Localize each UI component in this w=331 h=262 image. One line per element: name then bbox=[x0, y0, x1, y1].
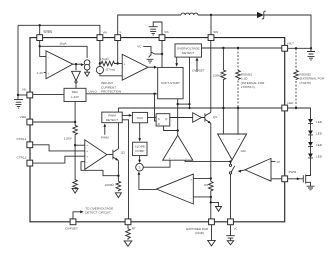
wire GM inputs to rail bbox=[223, 108, 238, 135]
svg-text:SHDN: SHDN bbox=[43, 30, 52, 34]
wire sense to inrush amp plus bbox=[118, 63, 123, 65]
wire SHDN internal drop bbox=[40, 41, 46, 57]
svg-text:–: – bbox=[268, 160, 270, 164]
LED D2 bbox=[308, 119, 313, 123]
wire Q1 collector to SW bbox=[210, 41, 212, 113]
node VIN cap junction dot bbox=[17, 94, 19, 96]
pin EXPOSED PAD bbox=[209, 219, 215, 225]
wire diode to output corner bbox=[264, 15, 311, 48]
pin VOUT bbox=[282, 45, 288, 51]
node ext rsense bottom bbox=[295, 107, 297, 109]
ground MOSFET source bbox=[307, 186, 315, 190]
op-amp A1 error amplifier bbox=[85, 140, 107, 170]
wire VIN internal drop bbox=[99, 41, 101, 67]
wire OVPSET annotation arrow bbox=[73, 212, 81, 219]
svg-text:Σ: Σ bbox=[139, 166, 141, 170]
wire VIN pin to REF bbox=[33, 94, 64, 96]
pin VREF bbox=[27, 119, 33, 125]
wire tap to error amp in1 bbox=[75, 144, 85, 146]
ground input cap bbox=[16, 105, 22, 109]
transistor Q1 bbox=[202, 112, 211, 123]
svg-text:+: + bbox=[268, 178, 270, 182]
LED D3 bbox=[308, 131, 313, 135]
node VREF branch bbox=[74, 121, 76, 123]
op-amp A5 PWM buffer bbox=[245, 158, 271, 181]
block SOFT-START bbox=[158, 67, 183, 98]
pin VIN left bbox=[27, 92, 33, 98]
svg-text:I: I bbox=[99, 68, 100, 72]
pin LED bbox=[282, 105, 288, 111]
node 1.05V tap bbox=[74, 144, 76, 146]
pin SW bbox=[208, 35, 214, 41]
svg-text:100kΩ: 100kΩ bbox=[213, 74, 223, 78]
wire comparator output bbox=[73, 63, 82, 65]
pin SS bbox=[159, 35, 165, 41]
ground VC arrow bbox=[227, 238, 233, 245]
wire OVD to soft-start arrow bbox=[176, 57, 178, 64]
wire feedback to error amp in4 bbox=[81, 162, 118, 176]
wire VC external cap bbox=[226, 225, 235, 238]
wire detect to osc arrow bbox=[122, 114, 129, 116]
wire detect to RT pin bbox=[122, 120, 128, 219]
op-amp A2 PWM comparator bbox=[163, 135, 193, 160]
svg-text:SOFT-START: SOFT-START bbox=[161, 81, 180, 85]
wire soft-start branch to rail bbox=[178, 103, 190, 105]
svg-text:LED: LED bbox=[316, 120, 323, 124]
block OVERVOLTAGE DETECT bbox=[175, 44, 202, 57]
wire inrush to soft-start arrow bbox=[148, 66, 155, 68]
svg-text:LED: LED bbox=[316, 132, 323, 136]
pin CTRL1 bbox=[27, 142, 33, 148]
capacitor SS C bbox=[149, 27, 158, 30]
wire CTRL1 to error amp bbox=[33, 145, 85, 151]
svg-text:9.5mΩ: 9.5mΩ bbox=[99, 57, 109, 61]
svg-text:1000Ω: 1000Ω bbox=[105, 183, 115, 187]
node SW top junction bbox=[210, 14, 212, 16]
wire comparator right input to VC bbox=[185, 160, 230, 161]
transistor M1 external PWM NMOS bbox=[288, 174, 311, 186]
svg-text:SLOPE: SLOPE bbox=[135, 144, 145, 148]
svg-text:–: – bbox=[124, 74, 126, 78]
node rsense int top bbox=[237, 47, 239, 49]
wire inductor to diode bbox=[198, 14, 257, 16]
svg-text:10µA: 10µA bbox=[59, 42, 67, 46]
svg-text:–: – bbox=[48, 55, 50, 59]
svg-text:OSC: OSC bbox=[137, 116, 144, 120]
svg-text:+: + bbox=[124, 62, 126, 66]
wire SW pin drop bbox=[210, 15, 212, 35]
pin L bbox=[115, 35, 121, 41]
current source I1 10uA bbox=[84, 60, 90, 66]
wire switch to VC pin bbox=[230, 174, 232, 219]
ground output cap bbox=[308, 56, 315, 60]
node Q2 emitter junction bbox=[117, 175, 119, 177]
buffer inverter to REF bbox=[75, 64, 77, 70]
svg-text:1.24V: 1.24V bbox=[71, 95, 80, 99]
svg-text:LED: LED bbox=[287, 101, 294, 105]
block REF 1.24V bbox=[64, 88, 86, 101]
svg-text:CTRL1: CTRL1 bbox=[16, 137, 26, 141]
op-amp A7 inrush comparator bbox=[122, 54, 148, 80]
svg-text:LED: LED bbox=[316, 143, 323, 147]
block OSC bbox=[132, 112, 147, 122]
buffer driver U3 bbox=[193, 113, 202, 123]
node 100k top bbox=[222, 47, 224, 49]
svg-text:DETECT: DETECT bbox=[182, 51, 194, 55]
svg-text:OVPSET: OVPSET bbox=[65, 226, 78, 230]
svg-text:LED: LED bbox=[316, 155, 323, 159]
svg-text:PWM: PWM bbox=[101, 136, 109, 140]
node inverter branch bbox=[75, 63, 77, 65]
wire RT external resistor bbox=[127, 225, 129, 229]
inductor L1 bbox=[181, 13, 198, 15]
wire latch R staircase bbox=[164, 126, 178, 131]
wire sense amp to sigma arrow bbox=[139, 175, 157, 190]
wire VOUT rail bbox=[202, 47, 285, 49]
node SS clamp tap bbox=[161, 53, 163, 55]
svg-text:REF: REF bbox=[72, 90, 78, 94]
LED D4 bbox=[308, 142, 313, 146]
wire OVPSET into OVD arrow bbox=[196, 60, 198, 72]
wire OVD drop to rail bbox=[189, 57, 191, 108]
node soft-start branch bbox=[177, 103, 179, 105]
svg-text:SW: SW bbox=[213, 30, 218, 34]
latch U2 SR bbox=[156, 114, 170, 126]
transistor Q2 bbox=[107, 149, 119, 161]
wire UVLO to latch bbox=[155, 94, 157, 121]
node rail 100k tap bbox=[222, 107, 224, 109]
capacitor input C at VIN bbox=[14, 95, 23, 102]
ground current source arrow bbox=[85, 70, 90, 76]
svg-text:PROTECTION: PROTECTION bbox=[101, 90, 121, 94]
ground 1000 ohm arrow bbox=[115, 193, 121, 198]
wire buffer plus to PWM pin bbox=[271, 178, 285, 180]
node sense bottom tap bbox=[210, 196, 212, 198]
ground SS cap bbox=[150, 32, 156, 35]
pin SHDN bbox=[37, 35, 43, 41]
wire Q2 emitter bbox=[117, 160, 119, 181]
svg-text:+: + bbox=[86, 149, 88, 153]
svg-text:+: + bbox=[48, 72, 50, 76]
wire osc to latch bbox=[148, 117, 157, 119]
wire 1V ref input bbox=[271, 160, 275, 162]
svg-text:–: – bbox=[190, 196, 192, 200]
node output cap junction bbox=[310, 47, 312, 49]
svg-text:+: + bbox=[169, 156, 171, 160]
svg-text:LT3478-1): LT3478-1) bbox=[241, 85, 255, 89]
timer circle 57ms bbox=[96, 66, 103, 73]
diode D1 schottky bbox=[257, 12, 264, 18]
wire LED pin to LED string bbox=[288, 108, 311, 119]
resistor 9.5mOhm bbox=[100, 61, 118, 66]
node comparator tap on VC bbox=[229, 160, 231, 162]
svg-text:PWM: PWM bbox=[108, 114, 116, 118]
node 10uA branch bbox=[39, 45, 41, 47]
wire VIN external top rail bbox=[18, 25, 100, 95]
pin VC bbox=[228, 219, 234, 225]
wire Q2 collector to rail bbox=[117, 108, 119, 149]
wire Q1 emitter to RS bbox=[210, 123, 212, 181]
capacitor output C bbox=[307, 48, 315, 54]
svg-text:S: S bbox=[158, 117, 160, 121]
svg-text:1.05V: 1.05V bbox=[64, 137, 73, 141]
ground internal pad arrow bbox=[211, 202, 222, 211]
svg-text:UVLO: UVLO bbox=[89, 90, 98, 94]
resistor 100k bbox=[221, 48, 226, 108]
wire VOUT external bbox=[288, 47, 311, 49]
node apex latch join bbox=[177, 129, 179, 131]
pin PWM bbox=[282, 176, 288, 182]
svg-text:DETECT: DETECT bbox=[106, 118, 118, 122]
svg-text:Q1: Q1 bbox=[213, 115, 217, 119]
wire L pin to inductor rail bbox=[118, 15, 181, 35]
block SLOPE COMP bbox=[133, 142, 147, 155]
wire EXPOSED PAD external bbox=[211, 225, 213, 241]
op-amp A3 current sense bbox=[156, 174, 193, 204]
svg-text:(57ms): (57ms) bbox=[106, 68, 116, 72]
svg-text:SS: SS bbox=[164, 30, 168, 34]
resistor divider R1 bbox=[73, 125, 78, 145]
node rail rsense tap bbox=[237, 107, 239, 109]
pin CTRL2 bbox=[27, 160, 33, 166]
summer S1 bbox=[136, 163, 144, 171]
pin RT bbox=[125, 219, 131, 225]
svg-text:1.4V: 1.4V bbox=[37, 71, 44, 75]
svg-text:–: – bbox=[223, 137, 225, 141]
svg-text:–: – bbox=[185, 156, 187, 160]
svg-text:+: + bbox=[190, 177, 192, 181]
pin OVPSET bbox=[70, 219, 76, 225]
wire VREF pin line bbox=[33, 121, 75, 123]
resistor RS bbox=[209, 182, 214, 203]
wire PWM arrow into detect bbox=[104, 126, 106, 135]
node UVLO drop bbox=[153, 93, 155, 95]
wire buffer output arrow to switch bbox=[241, 170, 245, 171]
svg-text:(GND): (GND) bbox=[195, 231, 204, 235]
ground clamp bbox=[147, 59, 154, 63]
wire latch to driver bbox=[170, 117, 193, 119]
wire SS pin drop to soft-start bbox=[161, 41, 163, 68]
node pad ground branch bbox=[210, 201, 212, 203]
node RSENSE2 ext top bbox=[295, 47, 297, 49]
svg-text:–: – bbox=[86, 160, 88, 164]
wire osc to slope comp arrow bbox=[139, 123, 141, 139]
ground RT arrow bbox=[124, 241, 132, 246]
block PWM DETECT bbox=[102, 112, 122, 123]
svg-text:PWM: PWM bbox=[289, 170, 297, 174]
wire timer to inrush amp minus bbox=[100, 74, 122, 76]
svg-text:DETECT CIRCUIT: DETECT CIRCUIT bbox=[85, 211, 111, 215]
svg-text:CTRL2: CTRL2 bbox=[16, 155, 26, 159]
pin VIN top bbox=[97, 35, 103, 41]
wire L internal drop bbox=[117, 41, 119, 64]
wire 1.4V ref input bbox=[44, 72, 46, 74]
wire CTRL2 to error amp bbox=[33, 156, 85, 163]
svg-text:OVPSET: OVPSET bbox=[192, 69, 205, 73]
resistor 1000 ohm bbox=[116, 181, 121, 191]
svg-text:OVERVOLTAGE: OVERVOLTAGE bbox=[177, 46, 200, 50]
chip border bbox=[30, 38, 285, 222]
op-amp A6 shutdown comparator bbox=[46, 51, 73, 79]
svg-text:+: + bbox=[238, 137, 240, 141]
wire VIN pin to cap bbox=[18, 94, 27, 96]
wire sigma to comparator bbox=[143, 160, 170, 167]
wire slope comp to sigma bbox=[139, 156, 141, 160]
op-amp A4 GM bbox=[218, 134, 247, 160]
wire UVLO rail bbox=[86, 93, 158, 95]
LED D5 bbox=[308, 154, 313, 158]
ground exposed pad arrow bbox=[208, 240, 216, 246]
node VIN rail junction dot bbox=[39, 24, 41, 26]
wire 10uA rail bbox=[40, 46, 87, 58]
svg-text:COMP: COMP bbox=[135, 149, 144, 153]
wire RSENSE2 external dashed bbox=[295, 48, 297, 108]
svg-text:LT3478): LT3478) bbox=[300, 81, 311, 85]
node sense top tap bbox=[210, 177, 212, 179]
wire sense amp inputs bbox=[193, 178, 211, 197]
svg-text:GM: GM bbox=[241, 149, 246, 153]
wire RS to exposed pad bbox=[210, 197, 212, 219]
resistor RSENSE2 internal dashed bbox=[237, 48, 239, 70]
svg-text:L: L bbox=[120, 30, 122, 34]
svg-text:+: + bbox=[86, 143, 88, 147]
wire VREF divider from REF bottom bbox=[74, 102, 76, 126]
ground divider arrow bbox=[72, 188, 78, 193]
switch S2 PWM bbox=[229, 164, 231, 166]
wire comparator apex up to soft-start bbox=[177, 99, 179, 136]
wire main rail B bbox=[118, 107, 284, 109]
node sense resistor left bbox=[99, 62, 101, 64]
svg-text:Q2: Q2 bbox=[121, 151, 125, 155]
svg-text:+: + bbox=[86, 155, 88, 159]
wire SS pin to external cap bbox=[153, 22, 162, 35]
resistor divider R2 bbox=[73, 145, 78, 189]
resistor RSENSE2 external bbox=[294, 70, 299, 80]
wire GM output bbox=[231, 160, 233, 164]
node sense resistor right bbox=[117, 62, 119, 64]
wire SHDN external left drop to OVPSET line bbox=[30, 37, 37, 39]
